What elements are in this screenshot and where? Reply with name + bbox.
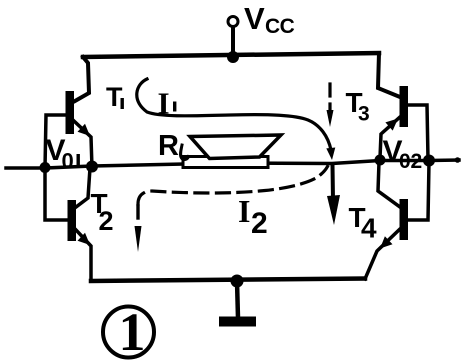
svg-text:0: 0 bbox=[62, 149, 74, 174]
current I2 dashed arrow near T3 bbox=[328, 84, 331, 96]
svg-text:4: 4 bbox=[361, 213, 377, 244]
wire: left input lead bbox=[6, 166, 45, 170]
transistor T2 emitter bbox=[76, 230, 91, 281]
resistor RL trapezoid bbox=[190, 135, 281, 159]
svg-text:I: I bbox=[158, 86, 170, 121]
svg-text:T: T bbox=[106, 82, 123, 112]
wire: T4 collector bbox=[378, 162, 400, 207]
figure number circle 1 bbox=[103, 307, 154, 358]
node: V01 input dot bbox=[40, 162, 51, 173]
svg-text:2: 2 bbox=[251, 207, 268, 240]
wire: T2 base lead bbox=[45, 168, 68, 220]
wire: T3 collector from rail bbox=[378, 53, 400, 97]
svg-text:1: 1 bbox=[119, 302, 146, 361]
transistor T3 base bar bbox=[400, 86, 409, 127]
transistor T4 base bar bbox=[400, 199, 409, 240]
svg-text:V: V bbox=[244, 1, 265, 36]
transistor T1 base bar bbox=[66, 91, 75, 134]
T3 label bbox=[346, 87, 370, 126]
current arrow below crossing bbox=[331, 165, 336, 200]
wire: ground stem bbox=[237, 281, 238, 318]
current I2 dashed curve bbox=[138, 167, 328, 205]
ground symbol bbox=[219, 317, 256, 327]
I1 label bbox=[158, 86, 177, 121]
I2 dashed start arrow bbox=[136, 206, 139, 218]
node: T1/T2 output dot bbox=[86, 161, 98, 173]
V01 label bbox=[46, 134, 80, 174]
svg-text:2: 2 bbox=[411, 150, 423, 173]
wire: T2 collector bbox=[76, 168, 90, 207]
transistor T2 base bar bbox=[68, 200, 77, 241]
transistor T3 emitter bbox=[380, 117, 400, 158]
wire: T1 collector from rail bbox=[75, 57, 89, 101]
current I1 curve bbox=[137, 79, 331, 150]
RL label bbox=[158, 130, 179, 162]
VCC label bbox=[244, 1, 295, 38]
svg-text:2: 2 bbox=[99, 206, 114, 236]
wire: bottom ground rail bbox=[91, 279, 365, 282]
T1 label bbox=[106, 82, 124, 112]
wire: middle horizontal rail bbox=[45, 160, 459, 168]
VCC terminal bbox=[228, 17, 238, 27]
node: VCC junction dot bbox=[227, 51, 239, 63]
svg-text:0: 0 bbox=[399, 150, 411, 173]
T2 label bbox=[91, 188, 114, 236]
node: V02 emitter junction dot bbox=[375, 155, 386, 166]
resistor RL load bar bbox=[183, 157, 268, 168]
node: ground junction dot bbox=[231, 275, 244, 288]
wire: T1 base lead to input node bbox=[45, 115, 67, 168]
wire: top VCC rail bbox=[83, 53, 379, 57]
svg-text:3: 3 bbox=[358, 103, 370, 126]
wire: T4 base lead bbox=[408, 162, 429, 220]
transistor T4 emitter bbox=[365, 229, 400, 279]
node: V02 output dot bbox=[423, 155, 435, 167]
svg-text:I: I bbox=[238, 193, 250, 229]
svg-text:CC: CC bbox=[265, 15, 295, 38]
wire: VCC stem bbox=[231, 28, 235, 57]
T4 label bbox=[349, 202, 378, 244]
transistor T1 emitter bbox=[74, 121, 92, 168]
I2 label bbox=[238, 193, 268, 240]
svg-text:R: R bbox=[158, 130, 179, 162]
V02 label bbox=[383, 135, 423, 173]
wire: T3 base lead bbox=[408, 105, 428, 159]
